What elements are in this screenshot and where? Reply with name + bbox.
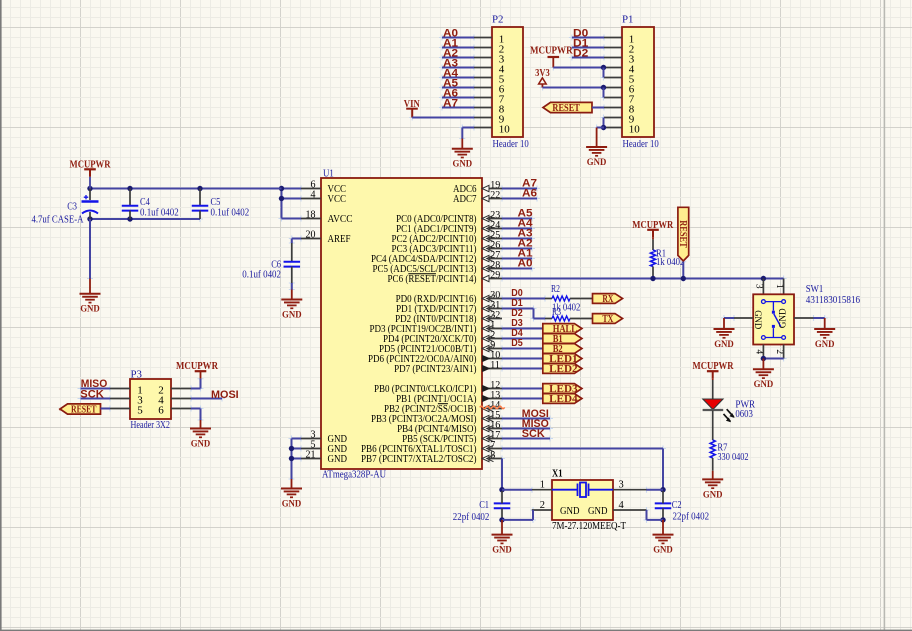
svg-text:0.1uf 0402: 0.1uf 0402: [211, 208, 250, 219]
svg-text:GND: GND: [560, 505, 580, 517]
svg-text:A6: A6: [522, 188, 537, 200]
svg-text:GND: GND: [453, 159, 473, 170]
svg-text:2: 2: [540, 500, 545, 511]
svg-text:0603: 0603: [735, 409, 753, 420]
svg-text:LED2: LED2: [549, 364, 578, 375]
svg-text:SCK: SCK: [522, 428, 545, 440]
svg-text:0.1uf 0402: 0.1uf 0402: [140, 208, 179, 219]
svg-text:P1: P1: [622, 14, 634, 25]
svg-text:GND: GND: [80, 304, 100, 315]
svg-text:P3: P3: [131, 369, 143, 380]
svg-text:10: 10: [499, 124, 511, 136]
svg-text:C2: C2: [672, 500, 682, 511]
svg-text:MCUPWR: MCUPWR: [632, 219, 674, 231]
svg-text:AVCC: AVCC: [328, 213, 353, 225]
svg-text:ATmega328P-AU: ATmega328P-AU: [322, 470, 386, 481]
svg-text:4: 4: [754, 349, 764, 354]
svg-text:22pf 0402: 22pf 0402: [453, 512, 490, 523]
svg-text:GND: GND: [703, 489, 723, 500]
svg-text:GND: GND: [653, 545, 673, 556]
svg-text:AREF: AREF: [328, 233, 351, 245]
svg-text:MOSI: MOSI: [211, 389, 239, 401]
svg-text:6: 6: [158, 405, 164, 417]
svg-text:1: 1: [774, 284, 784, 289]
svg-text:GND: GND: [588, 505, 608, 517]
svg-text:MCUPWR: MCUPWR: [530, 44, 573, 56]
svg-text:GND: GND: [282, 498, 302, 509]
svg-text:21: 21: [306, 450, 316, 461]
svg-text:11: 11: [490, 360, 500, 371]
svg-text:GND: GND: [778, 308, 788, 328]
svg-text:SW1: SW1: [806, 284, 824, 295]
svg-text:GND: GND: [752, 310, 762, 329]
svg-text:4.7uf CASE-A: 4.7uf CASE-A: [32, 214, 85, 225]
svg-text:RESET: RESET: [677, 220, 688, 248]
svg-text:3: 3: [619, 480, 624, 491]
svg-text:29: 29: [490, 270, 500, 281]
svg-text:3: 3: [754, 284, 764, 289]
svg-text:GND: GND: [714, 339, 734, 350]
svg-text:Header 3X2: Header 3X2: [131, 420, 171, 431]
svg-text:GND: GND: [191, 438, 211, 449]
svg-text:330 0402: 330 0402: [717, 452, 748, 463]
svg-text:RESET: RESET: [71, 405, 97, 416]
svg-text:MCUPWR: MCUPWR: [693, 360, 735, 372]
svg-text:4: 4: [311, 190, 316, 201]
svg-text:GND: GND: [328, 453, 348, 465]
svg-text:22pf 0402: 22pf 0402: [673, 512, 710, 523]
svg-text:TX: TX: [602, 314, 613, 325]
svg-text:GND: GND: [587, 157, 607, 168]
svg-text:GND: GND: [492, 545, 512, 556]
svg-text:5: 5: [137, 405, 143, 417]
svg-text:RX: RX: [602, 294, 613, 305]
svg-text:P2: P2: [492, 14, 504, 25]
svg-text:GND: GND: [815, 339, 835, 350]
svg-text:4: 4: [619, 500, 625, 511]
svg-text:MCUPWR: MCUPWR: [70, 158, 112, 170]
svg-text:Header 10: Header 10: [493, 139, 529, 150]
svg-text:LED4: LED4: [549, 394, 578, 405]
svg-text:D5: D5: [511, 337, 523, 349]
svg-text:SCK: SCK: [80, 388, 104, 400]
svg-text:22: 22: [490, 190, 500, 201]
svg-text:Header 10: Header 10: [623, 139, 659, 150]
svg-text:431183015816: 431183015816: [806, 295, 860, 306]
svg-text:1: 1: [540, 480, 545, 491]
svg-text:X1: X1: [552, 469, 563, 480]
svg-text:RESET: RESET: [552, 103, 580, 114]
svg-text:U1: U1: [323, 168, 334, 179]
svg-text:A7: A7: [443, 98, 458, 110]
svg-text:ADC7: ADC7: [453, 193, 477, 205]
svg-text:C3: C3: [67, 202, 77, 213]
svg-text:PD7 (PCINT23/AIN1): PD7 (PCINT23/AIN1): [394, 363, 477, 375]
svg-text:0.1uf 0402: 0.1uf 0402: [242, 269, 281, 280]
svg-text:C1: C1: [479, 500, 489, 511]
svg-text:R2: R2: [551, 284, 560, 295]
svg-text:2: 2: [774, 349, 784, 354]
svg-text:10: 10: [629, 124, 641, 136]
svg-text:20: 20: [306, 230, 316, 241]
svg-text:PB7 (PCINT7/XTAL2/TOSC2): PB7 (PCINT7/XTAL2/TOSC2): [361, 453, 477, 465]
svg-text:D2: D2: [573, 48, 588, 60]
svg-text:PC6 (RESET/PCINT14): PC6 (RESET/PCINT14): [388, 273, 477, 285]
svg-text:18: 18: [306, 210, 316, 221]
svg-text:VCC: VCC: [328, 193, 347, 205]
svg-text:A0: A0: [518, 258, 533, 270]
svg-text:7M-27.120MEEQ-T: 7M-27.120MEEQ-T: [552, 521, 626, 532]
svg-text:GND: GND: [282, 309, 302, 320]
svg-text:GND: GND: [754, 379, 774, 390]
